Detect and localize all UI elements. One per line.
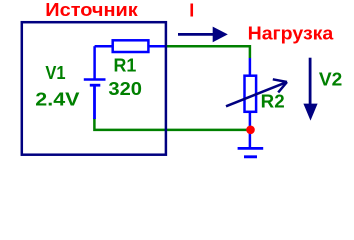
source block box bbox=[22, 22, 166, 155]
variable resistor arrow (R2) bbox=[226, 79, 287, 106]
wire: battery negative to load bottom (bottom net) bbox=[94, 118, 250, 130]
svg-text:V1: V1 bbox=[45, 63, 65, 83]
svg-text:320: 320 bbox=[108, 79, 142, 99]
svg-text:R2: R2 bbox=[261, 91, 285, 111]
current arrow I bbox=[178, 27, 228, 43]
ground bbox=[238, 148, 264, 156]
resistor R2 (variable) bbox=[245, 58, 257, 148]
svg-text:Источник: Источник bbox=[45, 0, 139, 20]
svg-text:2.4V: 2.4V bbox=[35, 89, 79, 109]
battery V1 bbox=[84, 46, 106, 119]
svg-text:R1: R1 bbox=[114, 55, 137, 75]
voltage arrow V2 bbox=[303, 58, 317, 121]
svg-text:V2: V2 bbox=[319, 69, 342, 89]
svg-text:Нагрузка: Нагрузка bbox=[248, 24, 335, 44]
wire: source output to load (top net) bbox=[166, 46, 250, 58]
junction dot bbox=[246, 126, 255, 135]
svg-text:I: I bbox=[189, 0, 194, 20]
resistor R1 bbox=[95, 40, 166, 52]
